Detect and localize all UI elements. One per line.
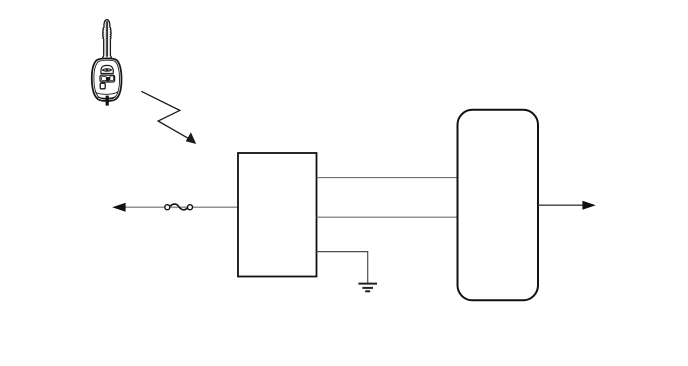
fob body inner line <box>94 60 120 99</box>
wire: receiver to ECU bottom <box>317 216 458 218</box>
ground symbol <box>358 284 377 292</box>
lock button <box>101 65 113 73</box>
zigzag arrowhead <box>186 132 197 144</box>
body bottom seam 2 <box>98 97 116 99</box>
right arrowhead <box>582 201 595 210</box>
wire: output right <box>538 204 583 206</box>
blade groove <box>106 21 107 57</box>
key ring stub <box>106 96 109 106</box>
receiver block <box>238 153 317 277</box>
dual button left pad <box>102 77 107 81</box>
fob body outer <box>92 58 122 101</box>
body bottom seam <box>95 92 118 95</box>
wire: ground lead <box>317 252 368 284</box>
dual button right pad <box>110 76 114 81</box>
lock button diamond <box>105 69 109 72</box>
transmitter key fob <box>92 20 122 106</box>
wire: antenna lead left <box>125 206 238 208</box>
key blade <box>102 20 111 59</box>
ECU block (rounded) <box>458 110 539 300</box>
wire: receiver to ECU top <box>317 177 458 179</box>
dual button dark key <box>107 77 110 81</box>
inline connector symbol <box>165 204 193 210</box>
dual button row <box>100 75 115 82</box>
RF signal zigzag arrow <box>141 91 196 144</box>
lock button lens icon <box>102 69 112 72</box>
small button <box>100 83 105 89</box>
left arrowhead <box>112 203 125 212</box>
